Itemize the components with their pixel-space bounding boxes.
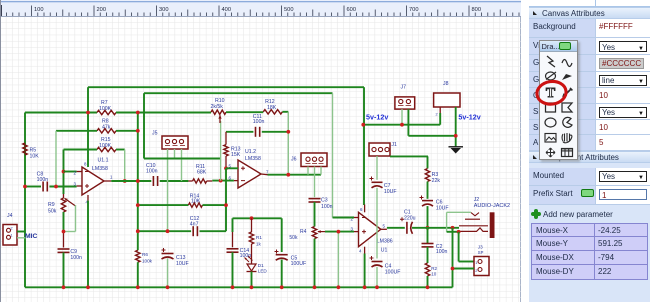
pin leads U1.2 [226,167,238,169]
resistor R5 [23,143,27,155]
svg-text:MIC: MIC [25,233,38,240]
svg-text:4n7: 4n7 [190,222,199,228]
svg-text:220u: 220u [404,216,416,222]
svg-text:SP: SP [478,250,484,255]
wire feedback vertical x=56 [55,131,57,187]
connector J4 MIC [3,225,17,246]
wire R8 right to node [116,130,138,132]
capacitor C13 [162,253,174,255]
wire C3 to R4 [314,202,316,227]
svg-text:100n: 100n [436,249,448,255]
svg-text:22k: 22k [432,178,441,184]
wire J1 leg to C7 [376,156,378,180]
wire J7 pin1 down [407,109,409,136]
capacitor C4 [372,261,383,263]
wire wiper vertical x=220.6 [220,121,222,181]
wire rail B top [144,92,333,94]
canvas grid [0,17,521,302]
capacitor C11 [255,127,257,137]
wire R9 top lead [63,194,65,198]
wire J1 to R3 [390,155,428,157]
resistor R12 [263,110,282,114]
capacitor C7 [372,181,383,183]
svg-text:T: T [545,86,555,101]
svg-text:2: 2 [11,227,13,231]
potentiometer R9 [61,198,65,212]
pin leads U1 [354,217,359,219]
svg-text:5v-12v: 5v-12v [366,112,388,121]
wire MIC pin2 [17,231,26,233]
capacitor C8 [42,182,44,192]
wire J5 leg mid [174,149,176,159]
svg-text:50k: 50k [48,209,57,215]
wire jack sleeve to J3 [447,231,459,233]
svg-text:1: 1 [11,234,13,238]
wire pin2 of U1.1 [64,171,77,173]
wire R9 bottom [63,212,65,232]
ground symbol [449,146,464,148]
svg-text:2k/5k: 2k/5k [211,104,224,110]
wire R15 right corner [116,149,125,151]
wire C6 down [427,206,429,228]
connector J6 [301,153,327,167]
wire y=218.3 to C5 [233,217,282,219]
wire R12 right corner down [282,111,288,113]
wire rail A vertical right to U1 pin6 [363,87,365,205]
op-amp U1.2 [238,160,261,188]
canvas left edge [0,0,1,302]
svg-text:100n: 100n [240,253,252,259]
capacitor C6 [422,200,433,202]
wire rail B left vertical [143,93,145,158]
wire R4 bottom [314,239,316,288]
svg-text:100UF: 100UF [291,261,307,267]
wire rail B right vertical to U1 pin2 [332,93,334,217]
ruler [0,0,521,17]
wire J8 left leg [439,107,441,113]
svg-text:R1: R1 [256,235,262,240]
resistor R3 [425,169,429,182]
wire R3 to C6 [427,182,429,199]
junction dots left cluster [86,111,90,115]
wire R15 left [64,149,98,151]
svg-text:R9: R9 [48,202,55,208]
svg-text:100n: 100n [146,168,158,174]
wire J5 leg right [181,149,183,181]
capacitor C1 220u [406,222,408,234]
wire U1.1 pin4 down [87,201,89,288]
svg-text:U1.1: U1.1 [98,158,109,164]
svg-text:AUDIO-JACK2: AUDIO-JACK2 [474,203,510,209]
wire R8 left [56,130,97,132]
capacitor C9 [63,232,65,248]
svg-text:J2: J2 [474,197,480,203]
wire left vertical x=25 [24,113,26,288]
wire y=131.8 C11 line [226,131,253,133]
wire R11 right to pin6 node [212,180,234,182]
potentiometer R10 [211,110,226,114]
svg-text:R4: R4 [300,229,307,235]
wire R4 wiper to U1 pin3 [325,231,354,233]
wire vertical x=63.5 to pin2 [63,150,65,195]
pin leads U1.1 [77,171,82,173]
svg-text:J4: J4 [7,213,13,219]
svg-text:C4: C4 [385,263,392,269]
wire U1.2 output [268,174,322,176]
svg-text:J1: J1 [391,142,397,148]
capacitor C10 [152,176,154,186]
wire jack tip link [447,211,471,213]
connector J5 [162,136,188,149]
resistor R15 [97,147,116,151]
svg-text:J7: J7 [401,84,407,90]
wire x=226 down to R14 node [225,168,227,231]
svg-text:68K: 68K [197,170,207,176]
wire U1 pin4 to ground rail [364,254,366,288]
svg-text:LED: LED [258,268,268,273]
wire C7 to C4 [376,188,378,259]
wire U1 output [387,227,405,229]
svg-text:J3: J3 [478,244,483,249]
capacitor C3 [309,198,321,200]
svg-text:LM358: LM358 [92,166,108,172]
svg-text:100n: 100n [37,177,49,183]
resistor R6 100k [136,250,140,262]
svg-text:D1: D1 [258,263,264,268]
wire y=158.5 cross link [144,158,221,160]
wire C8 line y=186.5 [25,186,41,188]
capacitor C12 [192,226,194,236]
wire J5 leg left long [167,149,169,231]
svg-text:R2: R2 [431,266,437,271]
svg-text:J5: J5 [152,130,158,136]
svg-text:100K: 100K [99,106,112,112]
wire J8 right leg [455,107,457,147]
wire R14 right [203,204,227,206]
svg-text:R6: R6 [142,252,148,257]
capacitor C2 [427,228,429,244]
connector J3 [474,257,489,276]
resistor R2 [427,247,429,263]
wire C12 line y=231.2 [138,230,191,232]
potentiometer R4 [312,227,316,239]
red annotation circle [527,72,577,116]
wire V+ to U1.1 pin8 [87,87,89,167]
svg-text:C13: C13 [176,255,186,261]
svg-text:200: 200 [97,7,107,13]
svg-text:1k: 1k [256,241,262,246]
svg-text:10: 10 [431,272,437,277]
svg-text:LM358: LM358 [245,156,261,162]
junction C8 wire [23,185,27,189]
resistor R13 [225,132,227,145]
wire U1 pin2 [333,217,355,219]
resistor R11 [193,179,207,183]
svg-text:100k: 100k [142,259,153,264]
svg-text:10K: 10K [191,199,201,205]
svg-text:300: 300 [159,7,169,13]
wire gnd link y=135.8 [408,135,455,137]
wire bus y=112.5 left segment [25,112,97,114]
svg-text:100UF: 100UF [385,270,401,276]
svg-text:700: 700 [409,7,419,13]
connector J1 [369,143,390,156]
wire node vertical x=137.8 [137,113,139,251]
capacitor C5 [276,254,288,256]
svg-text:100n: 100n [253,119,265,125]
wire R9 wiper down [75,205,77,232]
op-amp U1 LM386 [359,212,381,246]
svg-text:2: 2 [436,113,438,117]
wire R7 right to junction [116,112,211,114]
connector J8 [434,93,460,107]
wire +V rail A top [88,86,364,88]
svg-text:5v-12v: 5v-12v [458,112,480,121]
wire MIC pin1 [17,237,26,239]
LED D1 [251,244,253,264]
wire J6 legs [307,167,309,175]
svg-text:C3: C3 [321,198,328,204]
wire bottom ground rail [25,286,453,288]
svg-text:50k: 50k [289,235,298,241]
svg-text:15K: 15K [231,152,241,158]
svg-text:100: 100 [34,7,44,13]
wire J7 pin2 down [401,109,403,125]
resistor R1 [251,218,253,232]
svg-text:LM386: LM386 [377,238,393,244]
svg-text:J8: J8 [443,81,449,87]
svg-text:18K: 18K [267,105,277,111]
wire C1 to jack node [412,227,459,229]
svg-text:1: 1 [475,261,477,265]
connector J7 [395,97,415,109]
resistor R14 [138,204,189,206]
svg-text:500: 500 [284,7,294,13]
svg-text:U1.2: U1.2 [245,149,256,155]
svg-text:800: 800 [472,7,482,13]
svg-text:100n: 100n [321,204,333,210]
wire vertical x=124.7 [124,150,126,182]
svg-text:100n: 100n [70,255,82,261]
wire +V link y=124.7 [363,124,440,126]
svg-text:47k: 47k [102,124,111,130]
wire R10 right [226,111,263,113]
svg-text:10UF: 10UF [436,205,449,211]
svg-text:600: 600 [347,7,357,13]
svg-text:10UF: 10UF [176,261,189,267]
wire J3 pin2 to rail [453,268,475,270]
svg-text:400: 400 [222,7,232,13]
capacitor C14 [232,218,234,232]
wire U1.1 output line y=181 [111,180,151,182]
resistor R7 [97,110,116,114]
svg-text:2: 2 [475,269,477,273]
resistor R8 [97,129,116,133]
op-amp U1.1 [82,167,104,195]
svg-text:10K: 10K [30,153,40,159]
svg-text:U1: U1 [381,248,388,254]
svg-text:100K: 100K [99,143,112,149]
svg-text:R10: R10 [215,98,225,104]
svg-text:J6: J6 [291,157,297,163]
svg-text:10UF: 10UF [384,189,397,195]
